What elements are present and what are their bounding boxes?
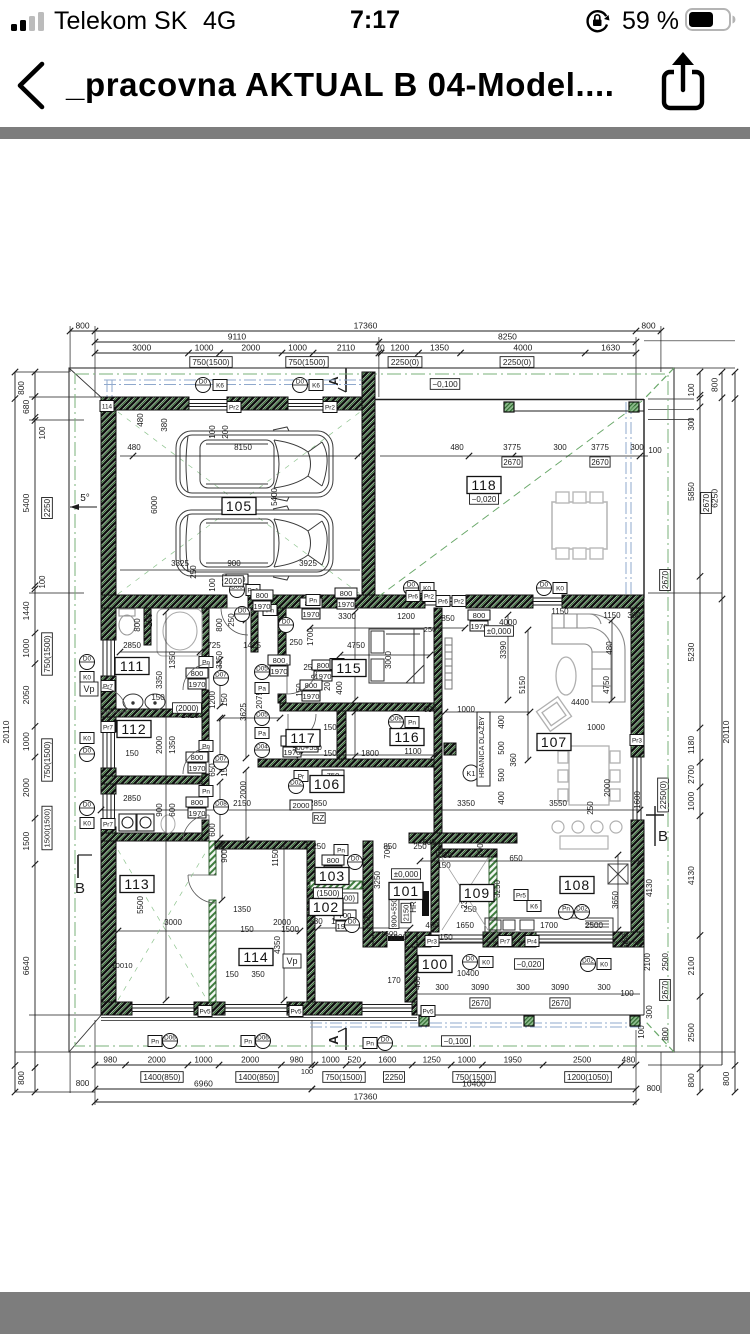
wall shaft (251, 608, 258, 652)
boxed label 750(1500) left #1 (42, 633, 53, 675)
svg-text:300: 300 (645, 1005, 654, 1019)
wall under room 112 (101, 776, 205, 784)
window label 750(1500) bottom (323, 1072, 365, 1083)
terrace chairs (556, 492, 569, 503)
svg-text:800: 800 (317, 661, 330, 670)
wall corridor left (202, 608, 209, 664)
dim line right 6250 tail (721, 599, 723, 1065)
room label 114 (239, 949, 273, 966)
wall garage bottom / house top (101, 595, 227, 608)
svg-text:−0,020: −0,020 (472, 495, 497, 504)
svg-text:800: 800 (327, 856, 340, 865)
dim chain right overall 20110 (734, 372, 736, 1092)
svg-text:650: 650 (509, 854, 523, 863)
window house left #3 (102, 794, 104, 827)
svg-text:Pn: Pn (366, 1041, 374, 1048)
svg-text:D0: D0 (282, 619, 291, 626)
svg-text:1400(850): 1400(850) (143, 1073, 181, 1082)
svg-text:750(1500): 750(1500) (325, 1073, 363, 1082)
svg-text:K0: K0 (482, 960, 490, 967)
wall corridor right upper (278, 608, 286, 663)
clock (340, 6, 410, 35)
svg-text:112: 112 (121, 721, 146, 737)
svg-text:1150: 1150 (551, 607, 569, 616)
svg-text:10400: 10400 (457, 969, 480, 978)
svg-text:Pn: Pn (562, 906, 570, 913)
svg-text:−0,020: −0,020 (517, 960, 542, 969)
svg-text:D05: D05 (256, 712, 268, 719)
svg-text:480: 480 (605, 641, 614, 655)
svg-text:1350: 1350 (168, 736, 177, 754)
battery icon (685, 8, 739, 32)
level label 118 (470, 494, 499, 505)
dim extension lines left (15, 371, 69, 373)
svg-text:Pr6: Pr6 (408, 594, 418, 601)
carrier (54, 7, 187, 36)
svg-text:111: 111 (120, 658, 144, 674)
svg-text:1970: 1970 (254, 602, 271, 611)
wall 103/102 divider (310, 881, 362, 889)
svg-text:1350: 1350 (430, 343, 449, 353)
svg-text:100: 100 (637, 1025, 646, 1039)
dim chain bottom segments (95, 1064, 636, 1066)
svg-text:1500(1500): 1500(1500) (43, 808, 52, 847)
window garage top #2 (288, 399, 323, 401)
window label 2250 bottom (383, 1072, 404, 1083)
garage diagonal 2 (green dashed) (118, 412, 360, 594)
svg-text:2670: 2670 (503, 458, 521, 467)
label 2020 garage (223, 576, 244, 587)
svg-text:580: 580 (309, 917, 323, 926)
label 5deg with arrow (70, 493, 97, 510)
signal bars (0, 0, 260, 48)
blue dash-dot gutter top (104, 379, 362, 381)
svg-text:106: 106 (314, 776, 340, 792)
svg-text:2000: 2000 (603, 779, 612, 797)
svg-text:17360: 17360 (354, 1092, 378, 1102)
svg-text:6640: 6640 (21, 956, 31, 975)
svg-text:D0: D0 (351, 856, 360, 863)
svg-text:1600: 1600 (633, 791, 642, 809)
svg-text:3550: 3550 (549, 799, 567, 808)
svg-text:480: 480 (136, 413, 145, 427)
svg-text:Pr2: Pr2 (424, 594, 434, 601)
svg-text:2000: 2000 (241, 1056, 260, 1065)
svg-text:2700: 2700 (686, 765, 696, 784)
svg-text:800: 800 (647, 1084, 661, 1093)
room label 117 (286, 730, 320, 747)
wall 101/109 divider (431, 843, 439, 932)
section mark A bottom (326, 1028, 346, 1050)
svg-text:1800: 1800 (361, 749, 379, 758)
porch post #2 (524, 1016, 534, 1026)
svg-text:108: 108 (564, 877, 590, 893)
shower corner 108 (608, 864, 628, 884)
svg-text:3325: 3325 (171, 559, 189, 568)
svg-text:2670: 2670 (591, 458, 609, 467)
svg-text:1000: 1000 (21, 639, 31, 658)
svg-text:480: 480 (622, 1056, 636, 1065)
window garage top #1 (189, 399, 227, 401)
svg-text:Pr6: Pr6 (438, 599, 448, 606)
svg-text:4000: 4000 (513, 343, 532, 353)
svg-text:5230: 5230 (686, 642, 696, 661)
svg-text:Pr7: Pr7 (500, 939, 510, 946)
svg-text:4130: 4130 (686, 866, 696, 885)
svg-text:350: 350 (251, 970, 265, 979)
svg-text:1250: 1250 (423, 1056, 442, 1065)
svg-text:4750: 4750 (347, 641, 365, 650)
battery percent (622, 7, 679, 36)
svg-text:D0: D0 (381, 1037, 390, 1044)
dim chain bottom 10400 (312, 1088, 636, 1090)
svg-text:1650: 1650 (456, 921, 474, 930)
room label 101 (389, 883, 423, 900)
roof hip top-left (69, 368, 103, 399)
svg-text:3000: 3000 (132, 343, 151, 353)
svg-text:2110: 2110 (337, 343, 356, 353)
label (1500) (314, 888, 343, 899)
window sill lines bottom wall (101, 1017, 417, 1019)
svg-text:800: 800 (17, 381, 26, 395)
svg-text:D02: D02 (576, 906, 588, 913)
interior dimension lines (98, 609, 643, 1003)
svg-text:2100: 2100 (686, 956, 696, 975)
svg-text:1200: 1200 (397, 612, 415, 621)
svg-text:1500: 1500 (21, 831, 31, 850)
window size label 750(1500) #1 (190, 357, 232, 368)
svg-text:3650: 3650 (611, 891, 620, 909)
svg-text:102: 102 (313, 899, 339, 915)
svg-text:6960: 6960 (194, 1079, 213, 1089)
svg-text:1440: 1440 (21, 601, 31, 620)
svg-text:250: 250 (312, 842, 326, 851)
svg-text:1350: 1350 (168, 651, 177, 669)
svg-text:800: 800 (191, 798, 204, 807)
roof hip bottom-left (69, 1013, 103, 1052)
label Vp 1 (80, 682, 98, 696)
svg-text:400: 400 (497, 715, 506, 729)
svg-text:Pr7: Pr7 (103, 725, 113, 732)
svg-text:100: 100 (38, 575, 47, 589)
room label 103 (315, 868, 349, 885)
door and window symbols (80, 378, 645, 1051)
svg-text:103: 103 (319, 868, 345, 884)
svg-text:4400: 4400 (571, 698, 589, 707)
boxed label 2670 right #2 (660, 569, 671, 590)
svg-text:105: 105 (226, 498, 252, 514)
svg-text:300: 300 (687, 417, 696, 431)
corner sofa room 107 (552, 614, 625, 702)
svg-text:8250: 8250 (498, 332, 517, 342)
svg-text:116: 116 (394, 729, 419, 745)
svg-text:800: 800 (76, 1079, 90, 1088)
room label 115 (332, 660, 366, 677)
svg-text:100: 100 (208, 578, 217, 592)
svg-text:150: 150 (439, 933, 453, 942)
toilet room 111 (119, 609, 135, 635)
porch post #1 (419, 1016, 429, 1026)
svg-text:Pr2: Pr2 (454, 599, 464, 606)
wall 109 right (489, 855, 497, 932)
svg-text:800: 800 (721, 1071, 731, 1085)
svg-text:Vp: Vp (83, 684, 94, 694)
boxed label 2670 right #3 (660, 979, 671, 1000)
dim chain right 6250 (721, 372, 723, 599)
svg-text:±0,000: ±0,000 (394, 870, 419, 879)
level label porch -0,100 (442, 1036, 471, 1047)
svg-text:150: 150 (151, 693, 165, 702)
svg-text:Pn: Pn (309, 598, 317, 605)
dim extension lines right (644, 340, 735, 342)
svg-text:2020: 2020 (224, 577, 242, 586)
svg-text:150: 150 (125, 749, 139, 758)
svg-text:3350: 3350 (457, 799, 475, 808)
wall house right (631, 608, 644, 757)
interior dimension texts (111, 413, 670, 1041)
wall 114 top (215, 841, 307, 849)
svg-text:109: 109 (464, 885, 490, 901)
roof hip bottom-right (green) (646, 1022, 674, 1052)
section mark B right (646, 806, 668, 846)
terrace top edge (375, 399, 644, 401)
svg-text:Pr3: Pr3 (427, 939, 437, 946)
svg-text:250: 250 (289, 638, 303, 647)
room label 111 (115, 658, 149, 675)
svg-text:700: 700 (476, 843, 485, 857)
svg-text:1150: 1150 (603, 611, 621, 620)
wall 116/106 bottom (258, 759, 442, 767)
svg-text:600: 600 (422, 838, 436, 847)
svg-text:1180: 1180 (686, 736, 696, 755)
svg-text:400: 400 (335, 681, 344, 695)
label RZ (313, 813, 325, 824)
svg-text:2050: 2050 (21, 685, 31, 704)
svg-text:D07: D07 (215, 756, 227, 763)
terrace inner edge (505, 410, 644, 412)
svg-text:2000: 2000 (148, 1056, 167, 1065)
car 1 in garage (176, 427, 333, 501)
svg-text:150: 150 (323, 749, 337, 758)
window house bottom #2 (225, 1004, 287, 1006)
armchair 107 (536, 697, 571, 732)
entry door bar 101 (422, 891, 429, 916)
gray separator top (0, 127, 750, 139)
svg-text:2850: 2850 (123, 641, 141, 650)
svg-text:2250: 2250 (43, 498, 52, 517)
svg-text:3925: 3925 (299, 559, 317, 568)
svg-text:RZ: RZ (314, 814, 325, 823)
svg-text:520: 520 (347, 1056, 361, 1065)
svg-text:800: 800 (75, 321, 89, 331)
dim chain bottom 6960 (95, 1088, 312, 1090)
diag marks 113 (118, 850, 207, 1000)
svg-text:100: 100 (301, 1067, 313, 1076)
svg-text:3000: 3000 (164, 918, 182, 927)
svg-text:1600: 1600 (381, 929, 398, 938)
svg-text:9110: 9110 (228, 332, 247, 342)
svg-text:2670: 2670 (661, 980, 670, 999)
svg-text:1970: 1970 (189, 809, 206, 818)
wall under room 111 (101, 709, 205, 717)
svg-text:1000: 1000 (288, 343, 307, 353)
svg-text:750(1500): 750(1500) (43, 741, 52, 779)
svg-text:360: 360 (509, 753, 518, 767)
svg-text:4750: 4750 (602, 676, 611, 694)
svg-text:D02: D02 (290, 780, 302, 787)
window kitchen bottom #1 (431, 934, 483, 936)
svg-text:Pr7: Pr7 (103, 684, 113, 691)
svg-text:2000: 2000 (21, 778, 31, 797)
back chevron (14, 60, 50, 112)
svg-text:1050: 1050 (434, 851, 452, 860)
svg-text:D0: D0 (296, 379, 305, 386)
wall kitchen bottom (417, 932, 431, 947)
svg-text:250: 250 (189, 565, 198, 579)
svg-text:1950: 1950 (504, 1056, 523, 1065)
svg-text:113: 113 (124, 876, 149, 892)
blue dash-dot terrace vertical2 (630, 402, 632, 596)
svg-text:101: 101 (393, 883, 419, 899)
svg-text:115: 115 (336, 660, 361, 676)
svg-text:1400(850): 1400(850) (238, 1073, 276, 1082)
svg-text:4350: 4350 (273, 936, 282, 954)
svg-text:480: 480 (450, 443, 464, 452)
bathtub room 111 (157, 609, 202, 656)
green dash-dot inset rectangle (75, 374, 668, 1046)
svg-text:2000: 2000 (241, 343, 260, 353)
wall under room 110 (101, 833, 205, 841)
svg-text:900+550: 900+550 (390, 899, 399, 928)
room label 109 (460, 885, 494, 902)
svg-text:Pv5: Pv5 (199, 1009, 210, 1016)
svg-text:2250: 2250 (385, 1073, 404, 1082)
svg-text:D0: D0 (348, 919, 357, 926)
svg-text:100: 100 (648, 446, 662, 455)
svg-text:D0: D0 (199, 379, 208, 386)
toilet room 110 (161, 815, 175, 833)
svg-text:150: 150 (225, 970, 239, 979)
boxed label 2670 right #1 (701, 492, 712, 513)
wall house bottom (101, 1002, 132, 1015)
svg-text:HRANICA DLAŽBY: HRANICA DLAŽBY (477, 716, 486, 778)
svg-text:5°: 5° (80, 493, 90, 504)
svg-text:200: 200 (221, 425, 230, 439)
wall 113/114 divider (209, 841, 216, 875)
svg-text:Pn: Pn (337, 848, 345, 855)
svg-text:D04: D04 (256, 744, 268, 751)
window label 750(1500) bottom2 (453, 1072, 495, 1083)
svg-text:500: 500 (497, 768, 506, 782)
svg-text:5500: 5500 (136, 896, 145, 914)
svg-text:B: B (75, 880, 85, 897)
svg-text:D05: D05 (256, 666, 268, 673)
orientation lock icon (585, 8, 611, 34)
svg-text:1630: 1630 (601, 343, 620, 353)
svg-text:114: 114 (243, 949, 268, 965)
svg-text:480: 480 (127, 443, 141, 452)
roof overhang outline (69, 368, 674, 1052)
dim chain top row segments (95, 352, 636, 354)
car 2 in garage (176, 506, 333, 580)
svg-text:3350: 3350 (155, 671, 164, 689)
svg-text:3250: 3250 (373, 871, 382, 889)
label Vp 2 (283, 954, 301, 968)
bar stools (552, 821, 564, 833)
svg-text:200: 200 (363, 912, 372, 926)
terrace table (552, 502, 607, 549)
svg-text:1700: 1700 (540, 921, 558, 930)
window size label 2250(0) #2 (500, 357, 534, 368)
terrace diagonal (green dashed) (378, 401, 642, 597)
svg-text:K0: K0 (83, 736, 91, 743)
svg-text:3775: 3775 (503, 443, 521, 452)
svg-text:800: 800 (661, 1027, 670, 1041)
level label 101 (392, 869, 421, 880)
wall 116 top (280, 703, 442, 711)
svg-text:1000: 1000 (194, 1056, 213, 1065)
door swing arcs (102, 608, 318, 903)
room label 116 (390, 729, 424, 746)
svg-text:900: 900 (220, 849, 229, 863)
svg-text:250: 250 (145, 613, 154, 627)
svg-text:800: 800 (17, 1071, 26, 1085)
svg-text:K1: K1 (466, 769, 475, 778)
svg-text:680: 680 (21, 400, 31, 414)
svg-text:800: 800 (133, 618, 142, 632)
svg-text:±0,000: ±0,000 (487, 627, 512, 636)
svg-text:800: 800 (641, 321, 655, 331)
svg-text:D0: D0 (83, 802, 92, 809)
wall house left (101, 608, 116, 640)
svg-text:3390: 3390 (499, 641, 508, 659)
wall garage top (with window piers) (101, 397, 189, 410)
room label 105 (222, 498, 256, 515)
svg-text:−0,100: −0,100 (444, 1037, 469, 1046)
svg-text:800: 800 (710, 378, 720, 392)
svg-text:380: 380 (160, 418, 169, 432)
HRANICA DLAZBY label (477, 712, 490, 786)
room label 113 (120, 876, 154, 893)
svg-text:400: 400 (497, 791, 506, 805)
svg-text:114: 114 (102, 404, 113, 411)
svg-text:Pa: Pa (258, 731, 266, 738)
blue dash-dot gutter line left2 (111, 380, 113, 598)
svg-text:725: 725 (207, 641, 221, 650)
diag marks 109 (442, 858, 488, 930)
svg-text:K6: K6 (216, 383, 224, 390)
window size label 750(1500) #2 (286, 357, 328, 368)
svg-text:750(1500): 750(1500) (192, 358, 230, 367)
svg-text:D09: D09 (390, 716, 402, 723)
svg-text:D0: D0 (407, 582, 416, 589)
svg-text:1970: 1970 (303, 610, 320, 619)
svg-text:2670: 2670 (471, 999, 489, 1008)
wall entry bottom (373, 932, 387, 947)
svg-text:5400: 5400 (270, 488, 279, 506)
room label 108 (560, 877, 594, 894)
blue dash-dot porch line2 (310, 1026, 641, 1028)
window house bottom #3 (362, 1004, 412, 1006)
svg-text:5150: 5150 (518, 676, 527, 694)
window house top (terrace) #2 (533, 597, 562, 599)
svg-text:117: 117 (290, 730, 315, 746)
wall 109 top (439, 849, 497, 857)
bed room 115 (369, 629, 424, 683)
wall porch left edge (405, 947, 417, 1002)
svg-text:2250(0): 2250(0) (659, 781, 668, 809)
svg-text:K0: K0 (83, 821, 91, 828)
